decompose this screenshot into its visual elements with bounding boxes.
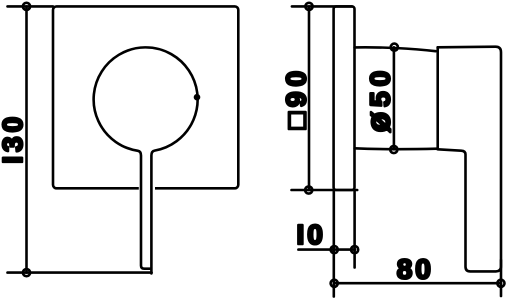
- marker dot left (80): [331, 280, 338, 287]
- extension line right (10 dim): [353, 190, 356, 268]
- lever handle and rosette circle (front view): [94, 47, 198, 273]
- marker dot bottom (sq90): [305, 186, 312, 193]
- svg-text:I30: I30: [0, 113, 28, 164]
- svg-text:ø50: ø50: [359, 66, 396, 132]
- cartridge sleeve bottom edge (side view): [355, 147, 437, 150]
- marker dot bottom (dia50): [390, 146, 397, 153]
- extension line top (sq90 dim, side view): [292, 5, 352, 8]
- svg-text:80: 80: [397, 254, 434, 285]
- svg-text:I0: I0: [297, 219, 326, 250]
- dimension line sq90: [308, 6, 311, 190]
- handle and lever outline (side view): [438, 47, 501, 272]
- temperature index dot on rosette: [194, 94, 201, 101]
- wall plate (side view): [334, 6, 355, 190]
- handle right edge extension line (80 dim): [500, 260, 503, 296]
- marker dot top (sq90): [305, 3, 312, 10]
- cartridge sleeve top edge (side view): [355, 47, 436, 51]
- extension line bottom (130 dim): [8, 271, 152, 274]
- marker dot right (10): [351, 246, 358, 253]
- marker dot top (130): [23, 3, 30, 10]
- dimension line dia50: [393, 47, 396, 149]
- dimension line 80: [334, 282, 501, 285]
- svg-text:□90: □90: [280, 66, 311, 129]
- marker dot right (80): [497, 280, 504, 287]
- marker dot bottom (130): [23, 269, 30, 276]
- dimension line 130: [25, 6, 28, 272]
- wall plate square 90x90 (front view): [53, 6, 238, 188]
- extension line left (10/80 dims): [332, 190, 335, 297]
- extension line top (130 dim, front view): [8, 5, 54, 8]
- extension / plate bottom line (sq90 dim): [292, 189, 358, 192]
- marker dot top (dia50): [391, 44, 398, 51]
- dimension line 10: [298, 248, 355, 251]
- marker dot left (10): [331, 246, 338, 253]
